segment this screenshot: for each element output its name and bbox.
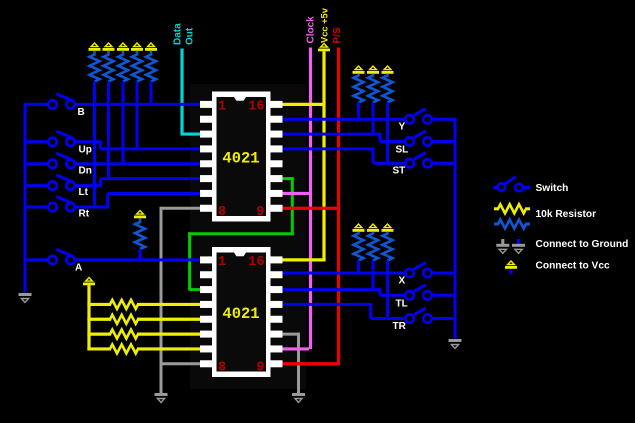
- svg-text:4021: 4021: [222, 150, 259, 168]
- node label A: [75, 263, 82, 274]
- wire R1 lead down: [93, 82, 96, 209]
- switch SW-A: [48, 249, 74, 264]
- wire R13 lead right: [137, 303, 205, 306]
- U1 pin number 1: [218, 100, 226, 115]
- svg-text:8: 8: [218, 361, 226, 376]
- wire R2 lead down: [107, 82, 110, 181]
- wire SL switch to bus: [431, 140, 456, 143]
- legend ground symbol gray stem: [496, 239, 509, 253]
- wire B switch to bus: [24, 103, 49, 106]
- resistor R2 10k pull-up: [104, 51, 114, 82]
- U2 pin number 9: [256, 361, 264, 376]
- wire Rt row: [75, 193, 205, 208]
- wire Lt switch to bus: [25, 184, 48, 187]
- wire TR switch to bus: [431, 317, 456, 320]
- wire Up row: [75, 142, 205, 149]
- svg-text:1: 1: [218, 100, 226, 115]
- wire R15 lead right: [137, 333, 205, 336]
- vcc symbol R8: [367, 66, 379, 74]
- resistor R5 10k pull-up: [146, 51, 156, 82]
- ground symbol below U2: [292, 393, 305, 403]
- switch SW-SL: [405, 131, 431, 146]
- wire yellow into U2 pin16: [278, 258, 326, 261]
- wire X row from U2 pin15: [278, 272, 407, 275]
- wire green horizontal between ICs: [188, 232, 294, 235]
- wire TR row from U2 pin13: [278, 304, 407, 318]
- node label Up: [79, 145, 92, 156]
- svg-text:Vcc +5v: Vcc +5v: [320, 7, 330, 43]
- U1 pin number 16: [248, 100, 264, 115]
- svg-text:16: 16: [248, 100, 264, 115]
- resistor R3 10k pull-up: [118, 51, 128, 82]
- vcc symbol R4: [131, 43, 143, 51]
- svg-text:SL: SL: [396, 145, 409, 156]
- wire R7 lead down: [357, 103, 360, 121]
- svg-text:X: X: [399, 276, 406, 287]
- wire red P/S vertical: [337, 48, 340, 364]
- svg-text:Connect to Vcc: Connect to Vcc: [536, 261, 610, 272]
- wire Rt switch to bus: [25, 206, 48, 209]
- svg-text:TR: TR: [393, 321, 407, 332]
- node label Y: [399, 122, 406, 133]
- svg-text:Clock: Clock: [306, 16, 317, 44]
- svg-text:Dn: Dn: [79, 166, 92, 177]
- U2 pin stubs: [200, 256, 283, 367]
- svg-text:16: 16: [248, 255, 264, 270]
- svg-text:Lt: Lt: [79, 187, 89, 198]
- svg-text:P/S: P/S: [332, 27, 343, 43]
- node label TL: [396, 299, 408, 310]
- node label Dn: [79, 166, 92, 177]
- vcc symbol R12: [382, 224, 394, 232]
- legend resistor blue: [494, 220, 530, 229]
- wire Y switch to bus: [431, 118, 456, 121]
- wire R6 lead to A row: [139, 249, 142, 260]
- wire A row to U2 pin1: [75, 258, 205, 261]
- wire R16 lead left: [87, 347, 111, 350]
- wire R8 lead down: [372, 103, 375, 136]
- U1 pin stubs: [200, 101, 283, 212]
- resistor R10 10k pull-up: [354, 232, 364, 261]
- legend ground symbol blue stem: [512, 239, 525, 253]
- U1 value label 4021: [222, 150, 259, 168]
- node label Data Out: [173, 23, 196, 45]
- legend vcc symbol blue stem: [505, 261, 517, 274]
- wire magenta branch to U1 pin10: [278, 192, 311, 195]
- wire R9 lead down: [386, 103, 389, 165]
- node label ST: [393, 166, 406, 177]
- op-amp substitute: shift register U1 4021 body: [212, 92, 271, 222]
- wire right bus vertical: [454, 118, 457, 339]
- node label Vcc +5v: [320, 7, 330, 43]
- node label X: [399, 276, 406, 287]
- wire gray vertical ground rail left: [160, 207, 163, 393]
- wire red into U2 pin9: [278, 362, 340, 365]
- wire SL row from U1 pin14: [278, 134, 407, 141]
- wire R10 lead down: [357, 261, 360, 275]
- wire R11 lead down: [372, 261, 375, 292]
- svg-text:10k Resistor: 10k Resistor: [536, 209, 597, 220]
- U2 pin number 8: [218, 361, 226, 376]
- svg-text:ST: ST: [393, 166, 406, 177]
- switch SW-Rt: [48, 196, 74, 211]
- svg-text:Data: Data: [173, 23, 184, 45]
- node label Lt: [79, 187, 89, 198]
- node label P/S: [332, 27, 343, 43]
- resistor R16 10k: [110, 344, 138, 353]
- vcc symbol R9: [382, 66, 394, 74]
- switch SW-ST: [405, 153, 431, 168]
- legend resistor yellow: [494, 204, 530, 213]
- node label Rt: [79, 209, 90, 220]
- switch SW-X: [405, 262, 431, 277]
- switch SW-Dn: [48, 153, 74, 168]
- svg-text:Switch: Switch: [536, 183, 569, 194]
- wire left bus vertical: [24, 103, 27, 293]
- wire Dn switch to bus: [25, 162, 48, 165]
- vcc symbol R7: [353, 66, 365, 74]
- wire R16 lead right: [137, 347, 205, 350]
- svg-text:1: 1: [218, 255, 226, 270]
- wire Up switch to bus: [25, 140, 48, 143]
- wire cyan into U1 pin3: [181, 132, 206, 135]
- U1 pin number 8: [218, 205, 226, 220]
- U2 orientation notch: [234, 253, 246, 257]
- wire R4 lead down: [136, 82, 139, 151]
- wire green from U1 pin11: [278, 177, 294, 180]
- svg-text:8: 8: [218, 205, 226, 220]
- wire R12 lead down: [386, 261, 389, 321]
- svg-text:4021: 4021: [222, 305, 259, 323]
- ground symbol left bus: [19, 293, 32, 303]
- wire R14 lead right: [137, 318, 205, 321]
- vcc symbol R6: [134, 211, 146, 219]
- U2 pin number 1: [218, 255, 226, 270]
- resistor R8 10k pull-up: [368, 74, 378, 103]
- wire magenta into U2 pin10: [278, 347, 309, 350]
- svg-text:A: A: [75, 263, 82, 274]
- svg-text:B: B: [78, 107, 85, 118]
- wire green into U2 pin3: [190, 288, 205, 291]
- legend label Switch: [536, 183, 569, 194]
- vcc symbol R1: [89, 43, 101, 51]
- op-amp substitute: shift register U2 4021 body: [212, 247, 271, 377]
- wire B row to U1 pin1: [75, 103, 205, 106]
- resistor R6 10k pull-up: [135, 218, 145, 249]
- switch SW-B: [48, 94, 74, 109]
- ground symbol right bus: [449, 339, 462, 349]
- resistor R12 10k pull-up: [383, 232, 393, 261]
- svg-text:Rt: Rt: [79, 209, 90, 220]
- wire R15 lead left: [87, 333, 111, 336]
- wire gray from U2 pin11 rightward: [278, 333, 300, 336]
- switch SW-Up: [48, 131, 74, 146]
- wire magenta Clock vertical: [309, 48, 312, 349]
- legend label Connect to Vcc: [536, 261, 610, 272]
- resistor R4 10k pull-up: [132, 51, 142, 82]
- vcc symbol R2: [103, 43, 115, 51]
- vcc symbol R5: [145, 43, 157, 51]
- wire yellow branch to U1 pin16: [278, 103, 324, 106]
- resistor R7 10k pull-up: [354, 74, 364, 103]
- wire TL switch to bus: [431, 294, 456, 297]
- wire gray from U1 pin8 to ground rail: [161, 207, 205, 210]
- switch SW-TR: [405, 308, 431, 323]
- wire yellow bus vertical: [87, 285, 90, 350]
- legend label 10k Resistor: [536, 209, 597, 220]
- resistor R15 10k: [110, 330, 138, 339]
- background texture panel: [190, 84, 306, 389]
- wire R5 lead down: [150, 82, 153, 106]
- U1 orientation notch: [234, 97, 246, 101]
- wire gray from U2 pin8 to ground rail: [160, 362, 206, 365]
- switch SW-Y: [405, 109, 431, 124]
- wire Y row from U1 pin15: [278, 118, 407, 121]
- wire red branch to U1 pin9: [278, 207, 339, 210]
- resistor R14 10k: [110, 315, 138, 324]
- vcc symbol yellow bus: [83, 278, 95, 286]
- wire green vertical to U2 pin3 row: [188, 232, 191, 290]
- switch SW-Lt: [48, 175, 74, 190]
- resistor R9 10k pull-up: [383, 74, 393, 103]
- wire ST row from U1 pin13: [278, 149, 407, 163]
- svg-text:Out: Out: [184, 27, 195, 45]
- node label SL: [396, 145, 409, 156]
- vcc symbol on Vcc +5v line: [318, 44, 330, 52]
- vcc symbol R11: [367, 224, 379, 232]
- resistor R11 10k pull-up: [368, 232, 378, 261]
- wire A switch to bus: [25, 258, 48, 261]
- wire R14 lead left: [87, 318, 111, 321]
- wire cyan Data Out vertical: [180, 49, 183, 135]
- vcc symbol R3: [117, 43, 129, 51]
- wire Lt row: [75, 179, 205, 188]
- switch SW-TL: [405, 285, 431, 300]
- svg-text:9: 9: [256, 205, 264, 220]
- svg-text:Connect to Ground: Connect to Ground: [536, 239, 629, 250]
- ground symbol bottom-left rail: [155, 393, 168, 403]
- resistor R13 10k: [110, 300, 138, 309]
- U2 value label 4021: [222, 305, 259, 323]
- svg-text:9: 9: [256, 361, 264, 376]
- wire ST switch to bus: [431, 162, 456, 165]
- wire X switch to bus: [431, 272, 456, 275]
- node label Clock: [306, 16, 317, 44]
- svg-text:Up: Up: [79, 145, 92, 156]
- U1 pin number 9: [256, 205, 264, 220]
- wire R13 lead left: [87, 303, 111, 306]
- wire gray vertical from U2 pin11 down: [297, 333, 300, 393]
- node label TR: [393, 321, 407, 332]
- wire TL row from U2 pin14: [278, 290, 407, 296]
- U2 pin number 16: [248, 255, 264, 270]
- wire yellow Vcc vertical: [322, 51, 325, 260]
- wire green vertical down: [291, 177, 294, 235]
- wire R3 lead down: [122, 82, 125, 166]
- node label B: [78, 107, 85, 118]
- legend switch symbol: [494, 177, 531, 192]
- vcc symbol R10: [353, 224, 365, 232]
- svg-text:TL: TL: [396, 299, 408, 310]
- legend label Connect to Ground: [536, 239, 629, 250]
- wire Dn row to U1 pin5: [75, 162, 205, 165]
- svg-text:Y: Y: [399, 122, 406, 133]
- resistor R1 10k pull-up: [90, 51, 100, 82]
